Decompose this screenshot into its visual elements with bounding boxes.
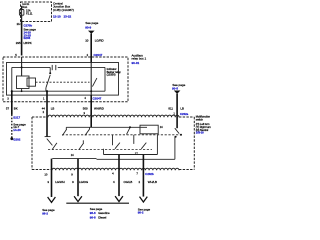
svg-text:LB: LB <box>180 106 184 110</box>
svg-text:295: 295 <box>16 41 21 45</box>
svg-text:S217: S217 <box>13 116 20 120</box>
svg-text:LB: LB <box>51 106 55 110</box>
svg-text:LG/WH: LG/WH <box>55 180 64 184</box>
svg-text:C202b: C202b <box>145 172 154 176</box>
svg-text:14: 14 <box>160 125 163 129</box>
svg-text:10: 10 <box>44 172 47 176</box>
svg-text:relay box 1: relay box 1 <box>132 57 147 61</box>
svg-text:LG/RD: LG/RD <box>95 38 104 42</box>
svg-text:96-8: 96-8 <box>90 215 96 219</box>
svg-text:Gasoline: Gasoline <box>98 211 110 215</box>
svg-text:569: 569 <box>83 106 88 110</box>
svg-text:WH/RD: WH/RD <box>94 106 104 110</box>
svg-text:LB/PK: LB/PK <box>24 41 32 45</box>
svg-text:96-2: 96-2 <box>42 211 48 215</box>
svg-text:G202: G202 <box>13 137 20 141</box>
svg-text:WH/LB: WH/LB <box>148 180 157 184</box>
svg-text:14-20: 14-20 <box>13 128 21 132</box>
svg-text:BK: BK <box>14 106 18 110</box>
svg-text:C2047: C2047 <box>94 53 103 57</box>
svg-text:LG/OG: LG/OG <box>79 180 89 184</box>
svg-text:See page: See page <box>85 21 98 25</box>
svg-text:switch: switch <box>196 117 204 121</box>
svg-text:12-10: 12-10 <box>53 15 61 19</box>
svg-text:96-6: 96-6 <box>90 211 96 215</box>
svg-text:44: 44 <box>42 106 46 110</box>
svg-text:(13350): (13350) <box>107 73 116 77</box>
svg-text:90-9: 90-9 <box>85 26 91 30</box>
svg-text:90-01: 90-01 <box>132 61 140 65</box>
svg-text:C202a: C202a <box>180 112 189 116</box>
svg-text:2H: 2H <box>17 22 21 26</box>
svg-text:(CJB) (14A067): (CJB) (14A067) <box>53 8 74 12</box>
svg-text:F2.11: F2.11 <box>26 11 33 15</box>
svg-text:OG/LB: OG/LB <box>124 180 133 184</box>
svg-text:10: 10 <box>85 38 89 42</box>
svg-text:90-5: 90-5 <box>172 87 178 91</box>
svg-text:Run: Run <box>22 5 27 9</box>
svg-text:57: 57 <box>6 106 10 110</box>
svg-text:96-2: 96-2 <box>138 211 144 215</box>
svg-text:S206: S206 <box>24 36 31 40</box>
svg-text:13-22: 13-22 <box>64 15 72 19</box>
svg-text:811: 811 <box>168 106 173 110</box>
svg-text:14: 14 <box>71 153 74 157</box>
svg-text:Diesel: Diesel <box>98 215 106 219</box>
svg-text:183-20: 183-20 <box>196 131 205 135</box>
svg-text:C2047: C2047 <box>93 97 102 101</box>
